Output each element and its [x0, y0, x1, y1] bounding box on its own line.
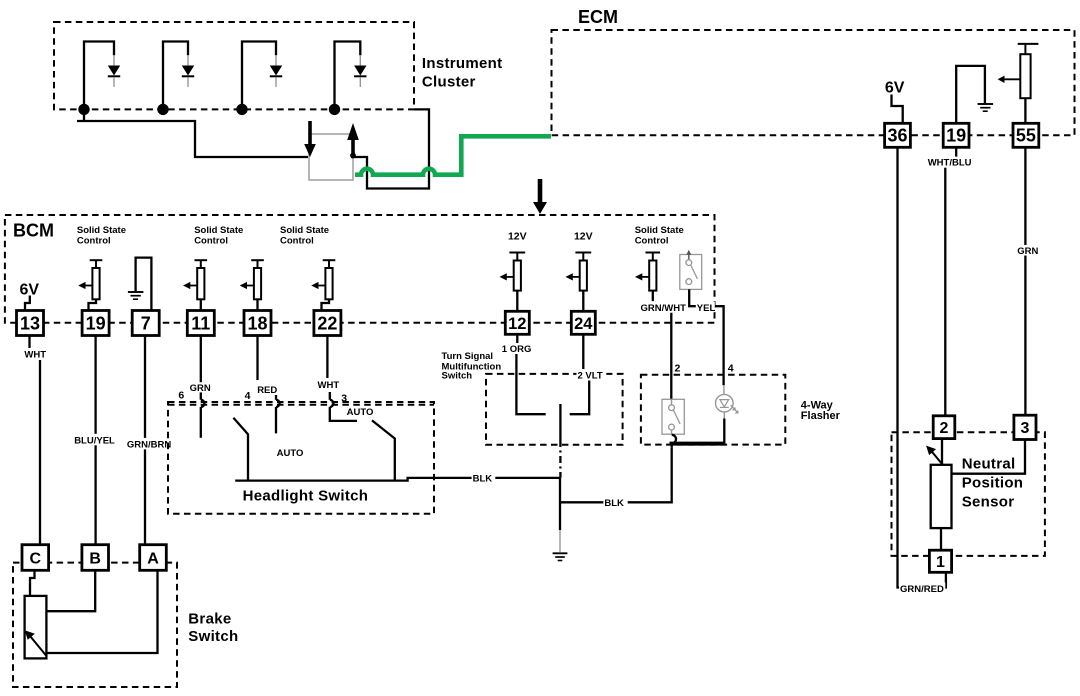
svg-text:2 VLT: 2 VLT — [578, 370, 603, 381]
label 2 VLT — [577, 370, 607, 382]
brake sensor rect — [25, 596, 47, 659]
wire pin 12 ORG to turn signal switch — [516, 334, 545, 414]
wire pin 11 GRN to headlight switch — [201, 336, 205, 438]
BCM pin box 12 — [505, 311, 529, 334]
instrument cluster box — [54, 22, 414, 109]
wire cluster right loop — [351, 109, 429, 188]
wire pin 22 WHT to headlight switch — [327, 336, 357, 421]
ECM pin box 55 — [1013, 123, 1039, 147]
svg-text:Solid State: Solid State — [77, 225, 126, 236]
svg-text:Brake: Brake — [188, 611, 231, 628]
flasher switch — [662, 399, 684, 434]
svg-text:55: 55 — [1016, 125, 1036, 145]
ECM pin box 36 — [885, 123, 911, 147]
svg-text:BLK: BLK — [604, 498, 624, 509]
wire ECM 36 to brake/NPS GRN/RED — [898, 147, 946, 587]
solid state driver GRN/WHT — [635, 253, 660, 304]
ECM box — [552, 30, 1075, 135]
svg-text:Position: Position — [962, 474, 1024, 491]
svg-text:C: C — [30, 551, 42, 568]
BCM pin box 11 — [187, 311, 214, 336]
label GRN — [189, 382, 214, 394]
svg-text:GRN/RED: GRN/RED — [900, 584, 944, 595]
label RED — [256, 384, 280, 396]
main ground wire — [559, 478, 561, 552]
wire brake B to sensor — [46, 570, 95, 611]
ECM pin box 19 — [943, 123, 969, 147]
svg-text:A: A — [147, 551, 159, 568]
wire relay to YEL — [689, 289, 723, 385]
svg-text:Instrument: Instrument — [422, 55, 503, 72]
svg-text:Control: Control — [77, 236, 111, 247]
lamp LED3 — [242, 42, 282, 110]
svg-text:ECM: ECM — [578, 7, 618, 27]
svg-text:GRN/BRN: GRN/BRN — [127, 439, 171, 450]
svg-text:B: B — [89, 551, 101, 568]
flasher lamp — [716, 385, 739, 443]
svg-text:19: 19 — [86, 313, 106, 333]
wire potentiometer to NPS 1 — [940, 528, 942, 550]
label GRN/WHT — [640, 301, 688, 314]
label WHT — [23, 348, 48, 360]
node dot 1 — [78, 104, 89, 115]
lamp LED4 — [335, 42, 367, 110]
gray module box — [309, 134, 353, 180]
driver at pin 12 — [500, 253, 526, 312]
driver at pin 24 — [566, 253, 592, 312]
wire 6V to pin 13 — [25, 296, 30, 311]
svg-text:Control: Control — [194, 236, 228, 247]
brake pin box C — [22, 545, 49, 571]
wire ECM pin 19 to ground — [956, 66, 985, 123]
label Instrument Cluster — [422, 55, 503, 91]
label 1 ORG — [501, 343, 532, 355]
svg-text:3: 3 — [1021, 420, 1030, 437]
wire pin 13 WHT to brake C — [30, 336, 41, 545]
svg-text:WHT/BLU: WHT/BLU — [928, 158, 972, 169]
label 4-Way Flasher — [801, 399, 841, 422]
label Solid State Control (pin 19) — [77, 225, 126, 246]
label BLU/YEL — [73, 434, 119, 447]
svg-text:24: 24 — [574, 315, 593, 333]
svg-text:Sensor: Sensor — [962, 493, 1015, 510]
svg-text:12V: 12V — [508, 231, 527, 243]
svg-text:BLK: BLK — [473, 473, 493, 484]
wire pin 18 RED to headlight switch — [258, 336, 280, 434]
NPS pin box 1 — [929, 550, 951, 572]
BCM pin box 24 — [571, 311, 595, 334]
headlight common bar — [235, 478, 560, 481]
svg-text:GRN/WHT: GRN/WHT — [641, 303, 687, 314]
label Brake Switch — [188, 611, 238, 646]
node dot 4 — [329, 104, 340, 115]
4-way flasher box — [641, 375, 785, 445]
svg-text:Solid State: Solid State — [280, 225, 329, 236]
label WHT (pin 22) — [317, 379, 342, 391]
svg-text:BLU/YEL: BLU/YEL — [74, 435, 115, 446]
svg-text:4: 4 — [728, 363, 734, 375]
svg-text:1 ORG: 1 ORG — [502, 344, 532, 355]
BCM box — [5, 215, 715, 323]
BCM pin box 7 — [132, 311, 159, 336]
label GRN/BRN — [126, 438, 172, 451]
NPS pin box 2 — [933, 416, 955, 439]
NPS pin box 3 — [1014, 415, 1036, 439]
turn signal switch box — [486, 374, 623, 445]
flow arrow down into module — [304, 121, 316, 157]
headlight switch box — [168, 402, 434, 514]
svg-text:GRN: GRN — [1017, 246, 1038, 257]
BCM pin box 18 — [244, 311, 271, 336]
svg-text:Control: Control — [635, 236, 669, 247]
label WHT/BLU — [927, 157, 976, 169]
svg-text:Switch: Switch — [188, 628, 238, 645]
svg-text:WHT: WHT — [318, 380, 340, 391]
svg-text:GRN: GRN — [190, 383, 211, 394]
BCM pin box 13 — [17, 311, 44, 336]
node dot 3 — [236, 104, 247, 115]
wire green to ECM — [355, 136, 551, 174]
label GRN (right) — [1016, 245, 1041, 257]
label GRN/RED — [899, 582, 945, 595]
wire 6V to pin 36 — [892, 95, 903, 124]
wire ECM 55 to NPS 3 GRN — [1024, 147, 1026, 415]
headlight blade 1 — [233, 418, 248, 481]
svg-text:12V: 12V — [574, 231, 593, 243]
label YEL — [696, 302, 716, 314]
wire flasher to ground BLK — [560, 448, 672, 503]
svg-text:RED: RED — [257, 385, 277, 396]
main ground symbol — [553, 553, 568, 560]
solid state driver at pin 18 — [240, 260, 264, 310]
svg-text:Switch: Switch — [442, 370, 473, 381]
wire pin 19 BLU/YEL to brake B — [94, 336, 96, 545]
wire brake A to sensor — [46, 570, 157, 653]
svg-text:7: 7 — [141, 313, 151, 333]
turn signal pole — [559, 404, 561, 478]
svg-text:Solid State: Solid State — [194, 225, 243, 236]
wire ECM 19 to NPS 2 WHT/BLU — [945, 147, 956, 416]
svg-text:1: 1 — [936, 554, 945, 571]
sensor element above ECM pin 55 — [998, 44, 1039, 123]
svg-text:Headlight Switch: Headlight Switch — [243, 487, 369, 504]
headlight blade 2 — [372, 420, 395, 480]
wire cluster to gray module — [83, 109, 85, 121]
solid state driver at pin 22 — [311, 260, 335, 310]
wire NPS 3 to potentiometer — [952, 440, 1025, 474]
wiper arrow NPS — [926, 446, 951, 475]
svg-text:Flasher: Flasher — [801, 410, 841, 422]
neutral position sensor box — [892, 432, 1045, 556]
wire pin 24 VLT to turn signal switch — [570, 334, 590, 414]
svg-text:13: 13 — [20, 313, 40, 333]
svg-text:Turn Signal: Turn Signal — [442, 351, 494, 362]
svg-text:18: 18 — [247, 313, 267, 333]
label Solid State Control (pin 11) — [194, 225, 243, 246]
label BLK (headlight) — [472, 472, 496, 484]
svg-text:4: 4 — [245, 390, 251, 402]
svg-text:YEL: YEL — [697, 303, 716, 314]
svg-text:11: 11 — [191, 313, 210, 333]
svg-text:6: 6 — [178, 390, 184, 402]
svg-text:Control: Control — [280, 236, 314, 247]
svg-text:2: 2 — [940, 420, 949, 437]
flasher bus thick wire — [670, 442, 725, 446]
ground in ECM — [978, 104, 994, 111]
wire GRN/WHT down to flasher switch — [670, 313, 672, 400]
BCM pin box 19 — [82, 311, 109, 336]
svg-text:Cluster: Cluster — [422, 74, 476, 91]
solid state driver at pin 11 — [183, 260, 207, 310]
ground above pin 7 — [128, 258, 151, 311]
svg-text:AUTO: AUTO — [347, 407, 374, 418]
flasher switch hop arc — [672, 435, 676, 448]
brake switch box — [13, 563, 177, 687]
label Turn Signal Multifunction Switch — [442, 351, 502, 382]
svg-text:6V: 6V — [885, 80, 905, 97]
svg-text:Neutral: Neutral — [962, 455, 1016, 472]
svg-text:Solid State: Solid State — [635, 225, 684, 236]
label BLK (flasher) — [603, 497, 627, 509]
svg-text:22: 22 — [317, 313, 337, 333]
node dot 2 — [157, 104, 168, 115]
wire pin 7 GRN/BRN to brake A — [144, 336, 146, 545]
lamp LED1 — [84, 42, 120, 110]
label Solid State Control (pin 22) — [280, 225, 329, 246]
solid state driver at pin 19 — [78, 260, 102, 310]
potentiometer NPS — [931, 465, 952, 528]
brake wiper arrow — [25, 630, 47, 656]
BCM pin box 22 — [314, 311, 341, 336]
brake pin box B — [82, 545, 109, 571]
svg-text:AUTO: AUTO — [277, 448, 304, 459]
brake pin box A — [140, 545, 167, 571]
flow arrow up from module — [347, 123, 359, 158]
svg-text:12: 12 — [508, 315, 526, 333]
svg-text:36: 36 — [887, 125, 907, 145]
label Solid State Control (GRN/WHT driver) — [635, 225, 684, 246]
svg-text:19: 19 — [946, 125, 966, 145]
lamp LED2 — [163, 42, 194, 110]
flow arrow into BCM — [533, 179, 547, 214]
svg-text:WHT: WHT — [24, 349, 46, 360]
wire brake C to sensor — [30, 570, 35, 596]
svg-text:BCM: BCM — [13, 221, 54, 241]
wire NPS 2 to potentiometer — [941, 439, 943, 465]
label Neutral Position Sensor — [962, 455, 1024, 510]
svg-text:2: 2 — [675, 363, 681, 375]
relay switch in BCM — [680, 250, 702, 290]
